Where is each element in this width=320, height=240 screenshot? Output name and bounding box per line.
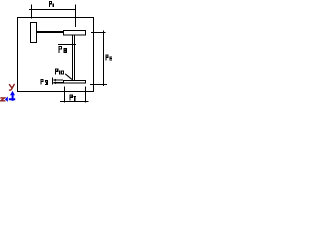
label P6 bbox=[105, 54, 108, 60]
labels drawn as pixel glyphs bbox=[40, 1, 112, 101]
web bar (horizontal thick) bbox=[37, 31, 63, 33]
P7 right extension line bbox=[85, 86, 87, 102]
dimension P1 left extension tick bbox=[31, 4, 33, 18]
bottom flange rectangle bbox=[64, 80, 86, 83]
stem left line bbox=[72, 35, 74, 80]
P6 top extension line bbox=[91, 32, 106, 34]
label P9 bbox=[40, 79, 43, 85]
left flange rectangle bbox=[31, 23, 37, 43]
axis label z (dark red) bbox=[1, 98, 5, 101]
P6 dimension line (vertical) bbox=[103, 30, 105, 86]
axis y arrow (blue, up) bbox=[12, 95, 14, 101]
label P1 bbox=[49, 1, 52, 7]
top flange rectangle bbox=[64, 31, 86, 36]
P7 left extension line bbox=[64, 86, 66, 102]
dimension P1 right extension tick bbox=[75, 4, 77, 26]
label P10 bbox=[55, 68, 59, 74]
P6 bottom extension line bbox=[90, 84, 107, 86]
P10 leader line (diagonal) bbox=[65, 74, 72, 80]
label P7 bbox=[69, 94, 73, 100]
P7 dimension line bbox=[60, 101, 89, 103]
axis symbol bbox=[1, 84, 16, 102]
outer box (section bounding rectangle) bbox=[18, 18, 94, 92]
stem right line bbox=[74, 35, 76, 80]
P8 leader line bbox=[58, 44, 76, 46]
axis label y (dark red) bbox=[9, 84, 14, 90]
P9 arrowhead bottom bbox=[53, 82, 56, 85]
P9 arrow top shaft bbox=[54, 79, 64, 81]
dimension P1 line bbox=[29, 9, 76, 11]
axis z arrow (blue, left) bbox=[9, 98, 15, 100]
P9 arrow bar bbox=[52, 78, 54, 85]
P9 arrow bottom shaft bbox=[54, 82, 64, 84]
label P8 bbox=[58, 46, 62, 53]
P9 arrowhead top bbox=[53, 79, 56, 82]
